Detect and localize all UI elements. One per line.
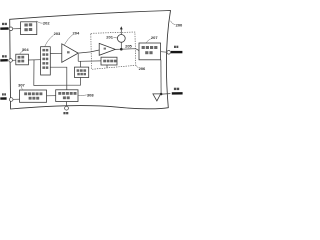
wire box3 to amp1 [50, 52, 62, 54]
svg-text:204: 204 [73, 31, 80, 36]
wire box C output [161, 51, 167, 54]
leader box B label [78, 94, 87, 97]
text blobs: box 204 DAC [42, 49, 48, 69]
wire box B to bottom port [66, 102, 68, 107]
text blobs: box C fiber module [142, 46, 158, 54]
leader box A label [21, 87, 22, 90]
wire amp1 output riser [77, 54, 79, 62]
op-amp U2 [99, 43, 115, 55]
text blobs: box A [24, 92, 42, 99]
wire box A to box B [47, 95, 56, 97]
svg-text:307: 307 [18, 83, 25, 88]
dashed module box [91, 32, 136, 69]
wire amp2 out to box C [115, 49, 139, 51]
svg-text:304: 304 [22, 47, 29, 52]
svg-text:207: 207 [151, 35, 158, 40]
arrow up from laser [120, 28, 122, 35]
port input1 thick stub [0, 27, 8, 30]
mark inside op-amp U1 [67, 51, 70, 53]
svg-text:200: 200 [176, 23, 183, 28]
driver box [101, 57, 117, 65]
text blobs: box 203 [18, 56, 25, 63]
terminal circle input1 [9, 27, 13, 31]
junction dot ground rail [160, 93, 163, 96]
box fiber module right [139, 43, 161, 60]
wire APC top riser [80, 61, 82, 67]
numeric labels [18, 20, 183, 97]
wire feedback line to driver [78, 60, 101, 62]
label 200 leader [171, 21, 176, 25]
wire box C to ground rail [160, 60, 162, 94]
svg-text:203: 203 [54, 31, 61, 36]
wire box3 lower out to box B [50, 67, 67, 90]
leader box203 [20, 51, 24, 54]
port input2 thick stub [0, 59, 8, 62]
leader box C label [146, 39, 151, 43]
svg-text:205: 205 [125, 43, 132, 48]
APC box [75, 67, 89, 77]
leader box202 [37, 21, 43, 23]
wire input1 to box 202 [13, 28, 21, 30]
svg-text:201: 201 [106, 35, 113, 40]
enclosure frame 200 [10, 11, 171, 110]
svg-text:308: 308 [87, 93, 94, 98]
op-amp U1 [62, 44, 78, 63]
terminal circle input3 [9, 98, 13, 102]
wire APC bottom to bus [67, 77, 81, 85]
text blobs: APC box [77, 69, 87, 75]
port output thick stub [171, 51, 183, 53]
terminal circle input2 [9, 59, 13, 63]
leader box204 [45, 35, 54, 46]
terminal circle bottom port [65, 106, 69, 110]
wire amp1 out to amp2 [78, 50, 99, 53]
laser diode circle [117, 35, 125, 43]
wire input3 to box 307 [13, 98, 19, 100]
wire laser circle stem [120, 42, 122, 49]
wire driver stub down [106, 65, 108, 68]
box 202 top-left [21, 22, 37, 35]
box 204 DAC tall [41, 47, 51, 75]
text blobs: driver box [103, 60, 116, 63]
text blobs: box B [58, 92, 76, 99]
mark inside op-amp U2 [104, 48, 106, 50]
box A fiber receive bottom-left [20, 90, 47, 102]
text blobs: port labels [2, 23, 179, 115]
svg-text:206: 206 [139, 66, 146, 71]
box B MCU bottom-mid [56, 90, 78, 102]
leader laser label [113, 36, 117, 39]
box 203 left mid [16, 54, 29, 65]
text blobs: box 202 [24, 23, 32, 31]
ground symbol [153, 94, 161, 101]
wire ground rail [157, 93, 171, 96]
junction dot at laser node [120, 48, 123, 51]
wire input2 to box 203 [12, 59, 15, 61]
port GND thick stub [172, 92, 183, 94]
port input3 thick stub [0, 97, 6, 99]
terminal circle output [167, 51, 171, 55]
svg-text:202: 202 [43, 20, 50, 25]
wire junction drop to bus [34, 60, 67, 86]
leader amp U1 [64, 35, 72, 45]
wire box2 to box3 [28, 59, 40, 61]
leader dashed box label [136, 65, 139, 67]
